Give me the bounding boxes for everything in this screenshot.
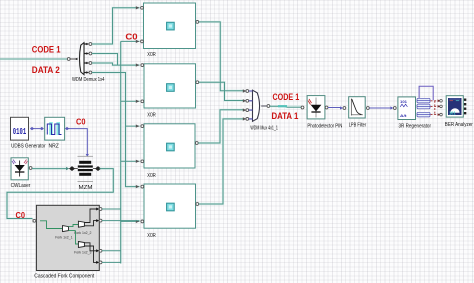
dashed wire 3R out2 to BER in2 bbox=[431, 105, 443, 108]
svg-text:CWLaser: CWLaser bbox=[11, 183, 31, 189]
svg-text:XOR: XOR bbox=[147, 173, 156, 179]
label C0 at NRZ bbox=[76, 118, 86, 127]
wire XOR2 out to mux in2 bbox=[199, 82, 247, 102]
svg-text:Photodetector PIN: Photodetector PIN bbox=[307, 124, 342, 130]
label DATA 1 right bbox=[272, 111, 299, 121]
svg-text:Fork 1x2_3: Fork 1x2_3 bbox=[74, 251, 91, 255]
wire LPB to 3R Regenerator bbox=[367, 106, 397, 109]
svg-text:Fork 1x2_1: Fork 1x2_1 bbox=[55, 235, 72, 239]
wire demux out1 to XOR1 top bbox=[92, 6, 140, 44]
wire XOR3 out to mux in3 bbox=[198, 108, 246, 143]
svg-text:3R Regenerator: 3R Regenerator bbox=[399, 124, 432, 130]
label DATA 2 bbox=[32, 65, 60, 75]
label BER Analyzer bbox=[445, 122, 473, 128]
label C0 at fork bbox=[16, 211, 26, 220]
label XOR 4 bbox=[147, 233, 156, 239]
XOR gate U5 box bbox=[141, 184, 199, 228]
wire demux out2 bbox=[92, 54, 118, 66]
CW Laser box bbox=[11, 158, 28, 180]
XOR gate U3 box bbox=[141, 64, 199, 108]
label XOR 2 bbox=[147, 113, 156, 119]
label CWLaser bbox=[11, 183, 31, 189]
wire demux out3 to XOR2 top bbox=[92, 63, 140, 67]
wire XOR4 out to mux in4 bbox=[199, 117, 247, 204]
LPB Filter box bbox=[349, 97, 366, 118]
label C0 top bbox=[125, 32, 137, 42]
dashed wire 3R out3 to BER in3 bbox=[431, 113, 443, 116]
wire fork out1 to bus bbox=[102, 208, 121, 210]
svg-text:C0: C0 bbox=[16, 211, 26, 220]
svg-text:LPB Filter: LPB Filter bbox=[349, 123, 367, 129]
wire laser to MZM bbox=[29, 167, 69, 171]
label XOR 3 bbox=[147, 173, 156, 179]
label UDBS Generator bbox=[11, 143, 46, 149]
label MZM bbox=[79, 185, 93, 191]
BER Analyzer box bbox=[446, 96, 466, 117]
wire NRZ to MZM bbox=[68, 129, 89, 157]
WDM Mux 4x1 U6 bbox=[246, 90, 270, 122]
wire purple loop 3R to BER bbox=[419, 86, 433, 100]
wire fork out2 to bus bbox=[102, 220, 140, 222]
MZM modulator bbox=[70, 156, 101, 181]
label CODE 1 bbox=[32, 44, 61, 54]
XOR gate U2 box bbox=[141, 3, 199, 49]
svg-text:WDM Mux 4x1_1: WDM Mux 4x1_1 bbox=[250, 125, 278, 131]
wire input to demux bbox=[0, 58, 67, 60]
3R output connector 3 bbox=[417, 112, 430, 117]
label XOR 1 bbox=[147, 52, 156, 58]
fork F3 symbol bbox=[74, 231, 91, 255]
svg-text:NRZ: NRZ bbox=[49, 143, 59, 149]
label Photodetector PIN bbox=[307, 124, 342, 130]
fork internal wires to ports bbox=[85, 208, 103, 264]
svg-text:BER Analyzer: BER Analyzer bbox=[445, 122, 473, 128]
label WDM Demux 1x4 bbox=[72, 77, 105, 83]
3R output connector 2 bbox=[417, 104, 430, 109]
svg-text:CODE 1: CODE 1 bbox=[32, 44, 61, 54]
svg-text:101: 101 bbox=[400, 99, 408, 104]
wire fork bus vertical bbox=[120, 41, 122, 263]
wire fork out4 to bus bbox=[102, 261, 121, 263]
wire UDBS to NRZ bbox=[33, 127, 44, 130]
label Cascaded Fork Component bbox=[34, 274, 95, 280]
label NRZ bbox=[49, 143, 59, 149]
svg-text:101: 101 bbox=[449, 111, 456, 116]
3R output connector 1 bbox=[417, 98, 430, 103]
label LPB Filter bbox=[349, 123, 367, 129]
fork F1 symbol bbox=[40, 221, 73, 240]
3R Regenerator box bbox=[398, 97, 416, 120]
svg-text:XOR: XOR bbox=[147, 52, 156, 58]
svg-text:Fork 1x2_2: Fork 1x2_2 bbox=[74, 231, 91, 235]
svg-text:C0: C0 bbox=[76, 118, 86, 127]
wire fork bus to XOR1 bottom bbox=[121, 40, 140, 43]
svg-text:Cascaded Fork Component: Cascaded Fork Component bbox=[34, 274, 95, 280]
svg-text:XOR: XOR bbox=[147, 113, 156, 119]
svg-text:0101: 0101 bbox=[13, 127, 27, 137]
svg-text:DATA 1: DATA 1 bbox=[272, 111, 299, 121]
label WDM Mux 4x1_1 bbox=[250, 125, 278, 131]
dashed wire 3R out1 to BER in1 bbox=[431, 99, 443, 102]
svg-text:XOR: XOR bbox=[147, 233, 156, 239]
WDM Demux 1x4 U1 bbox=[67, 43, 92, 75]
wire fork bus to XOR4 bottom bbox=[121, 220, 140, 223]
wire fork bus to XOR3 bottom bbox=[121, 160, 140, 163]
XOR gate U4 box bbox=[141, 124, 198, 168]
wire MZM to fork input bbox=[7, 169, 113, 223]
wire riser to XOR4 top bbox=[126, 126, 140, 188]
NRZ pulse generator box bbox=[45, 117, 69, 140]
fork F2 symbol bbox=[69, 221, 92, 235]
svg-text:MZM: MZM bbox=[79, 185, 93, 191]
svg-text:DATA 2: DATA 2 bbox=[32, 65, 60, 75]
wire photodetector to LPB bbox=[325, 106, 346, 110]
svg-text:WDM Demux 1x4: WDM Demux 1x4 bbox=[72, 77, 105, 83]
Cascaded Fork Component box bbox=[33, 205, 99, 270]
wire fork out3 to bus bbox=[102, 250, 121, 252]
wire XOR1 out to mux in1 bbox=[199, 22, 247, 93]
wire fork bus to XOR2 bottom bbox=[121, 100, 140, 103]
wire mux to photodetector bbox=[270, 105, 305, 109]
dashed vertical jog bbox=[434, 101, 436, 115]
svg-text:UDBS Generator: UDBS Generator bbox=[11, 143, 46, 149]
UDBS Generator box bbox=[11, 117, 35, 140]
label 3R Regenerator bbox=[399, 124, 432, 130]
svg-text:A/t: A/t bbox=[400, 113, 407, 118]
wire glow underlay bbox=[0, 8, 301, 264]
Photodetector PIN box bbox=[307, 96, 325, 119]
svg-text:CODE 1: CODE 1 bbox=[273, 92, 300, 102]
wire demux out4 riser bbox=[92, 73, 140, 128]
label CODE 1 right bbox=[273, 92, 300, 102]
